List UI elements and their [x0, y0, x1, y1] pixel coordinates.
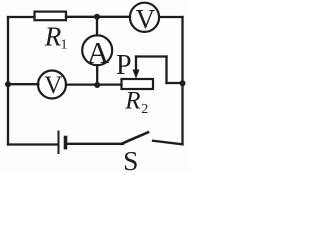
svg-text:V: V: [44, 72, 62, 99]
svg-text:V: V: [136, 4, 156, 34]
svg-text:R: R: [44, 22, 62, 52]
svg-text:P: P: [116, 50, 132, 81]
svg-text:2: 2: [141, 102, 148, 117]
svg-text:S: S: [123, 145, 138, 172]
svg-text:1: 1: [61, 38, 68, 53]
svg-text:A: A: [87, 35, 110, 70]
svg-text:R: R: [124, 88, 140, 115]
